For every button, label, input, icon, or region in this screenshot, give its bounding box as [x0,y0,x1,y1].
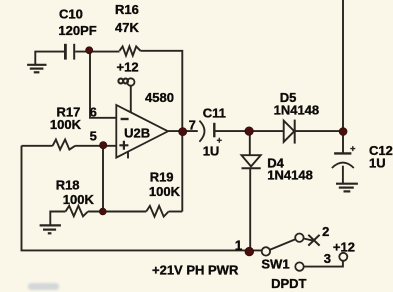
svg-text:1U: 1U [369,155,386,170]
svg-text:DPDT: DPDT [271,276,306,291]
svg-text:47K: 47K [115,20,139,35]
svg-text:R16: R16 [115,2,139,17]
svg-text:R18: R18 [56,178,80,193]
svg-text:+21V PH PWR: +21V PH PWR [152,262,239,277]
svg-text:6: 6 [90,104,97,119]
svg-text:SW1: SW1 [261,257,289,272]
svg-text:1: 1 [235,238,243,253]
svg-text:100K: 100K [63,192,95,207]
svg-text:2: 2 [322,224,329,239]
svg-text:120PF: 120PF [58,23,96,38]
svg-text:U2B: U2B [124,126,150,141]
svg-text:C10: C10 [59,7,83,22]
svg-text:3: 3 [324,251,331,266]
svg-text:4580: 4580 [145,90,174,105]
svg-text:100K: 100K [149,184,181,199]
svg-text:1N4148: 1N4148 [274,103,320,118]
svg-text:5: 5 [90,129,97,144]
svg-text:+12: +12 [117,59,139,74]
svg-text:1N4148: 1N4148 [267,168,313,183]
svg-text:7: 7 [189,118,196,133]
svg-text:C11: C11 [203,105,226,120]
svg-text:R19: R19 [150,169,174,184]
svg-text:+12: +12 [333,239,355,254]
svg-text:100K: 100K [50,117,82,132]
svg-text:1U: 1U [203,144,220,159]
